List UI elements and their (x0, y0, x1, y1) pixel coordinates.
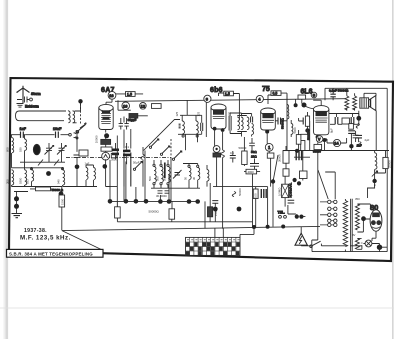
antenna loop wire (16, 111, 67, 121)
oscillator coil 5 (198, 167, 200, 179)
title box S.B.R. 384 A (7, 249, 104, 257)
svg-text:50000Ω: 50000Ω (149, 210, 160, 214)
power transformer terminal circles col2 (334, 200, 337, 226)
diode load caps (249, 138, 255, 152)
wire coil tops bus (12, 167, 63, 169)
trimmer capacitor 1 (45, 146, 54, 155)
osc bottom wire (151, 187, 200, 189)
tube 80 plates (372, 213, 380, 218)
svg-text:1nF: 1nF (85, 162, 90, 166)
long vertical 75/6L6 to bus (317, 151, 319, 227)
svg-text:P: P (374, 184, 376, 188)
transformer feed wires (318, 170, 335, 199)
osc grid resistor dark box (129, 114, 138, 119)
wire top cap (106, 94, 143, 105)
wire 75 cathode (267, 134, 270, 187)
speaker cone (369, 96, 376, 111)
wire down to ground (14, 192, 28, 214)
warning triangle (295, 233, 307, 245)
tube 6A7 electrode stack (101, 110, 111, 123)
osc trimmer cap (173, 170, 182, 179)
svg-text:V: V (318, 137, 321, 142)
junction dot tone (372, 179, 376, 183)
transformer core lines (351, 199, 353, 251)
svg-text:500: 500 (162, 176, 166, 181)
vertical resistor between 75 and 6L6 (296, 135, 301, 145)
IFT1 primary winding (182, 121, 184, 134)
lower link wire (117, 217, 252, 222)
circled V meter (316, 136, 323, 143)
svg-text:350: 350 (355, 197, 360, 201)
svg-text:1500: 1500 (61, 198, 65, 205)
iron core oval (33, 144, 40, 154)
small box right of meter (111, 153, 116, 157)
wire osc switch stem (170, 158, 172, 202)
arrow symbol tone (372, 171, 378, 177)
junction dot g2 (14, 204, 19, 209)
circled 1 volume (265, 143, 273, 151)
wire 75 top (268, 93, 287, 150)
antenna coupling capacitor (17, 97, 29, 103)
wire 6b6 down (215, 131, 223, 151)
transformer HT secondary zigzag (355, 204, 359, 230)
caps under coils (158, 191, 170, 193)
resistor box v1 (115, 207, 121, 218)
gang arrows (38, 160, 59, 166)
tube 6L6G cathode dots (316, 135, 320, 139)
wire row1 bus (106, 186, 118, 188)
curl under IFT2 (232, 192, 235, 197)
input wire with capacitors (11, 134, 69, 136)
aux coil chain b (94, 167, 96, 179)
svg-text:0,5: 0,5 (273, 92, 278, 96)
svg-text:50000Ω: 50000Ω (281, 118, 285, 129)
band switch junction dot (78, 99, 82, 103)
resistor small box (349, 124, 354, 130)
cap 8uF a (348, 131, 355, 134)
speaker field coil box (360, 98, 369, 108)
wire right bus y150 (283, 150, 389, 152)
junction dot padder (75, 165, 80, 170)
bias box 75 (267, 153, 274, 158)
tube 80 leads (372, 231, 376, 241)
circled 10 (122, 102, 130, 110)
bottom-left texts (20, 228, 71, 242)
tube 6b6 body (211, 104, 226, 129)
svg-text:Sterm: Sterm (31, 92, 41, 96)
bias resistor box dark (101, 139, 111, 144)
scan right edge line (392, 0, 394, 339)
coil column 3 lower (32, 170, 34, 181)
input terminals (69, 133, 72, 136)
resistor box 10000 (101, 147, 112, 151)
screen dropping box (305, 116, 309, 126)
wire coil bottoms bus (12, 181, 63, 186)
resistor box 50000 vertical (242, 151, 247, 165)
bold capacitor A (112, 149, 119, 152)
junction dot g1 (14, 196, 19, 201)
tube 6b6 cathode dots (213, 127, 217, 131)
wires 6L6 down (318, 114, 359, 151)
output transformer primary zigzag (345, 88, 349, 110)
bold capacitor B (123, 150, 131, 153)
stacked resistor boxes right of 75 (283, 151, 289, 164)
osc coil top wires (154, 160, 198, 188)
junction dots bus (252, 225, 256, 229)
junction dot tuning (46, 171, 51, 176)
circled meter symbol (102, 152, 110, 160)
oscillator coil 4 (189, 167, 191, 179)
junction dot bus150 (295, 149, 299, 153)
svg-text:3000: 3000 (111, 158, 117, 162)
svg-text:600: 600 (5, 147, 9, 152)
svg-text:5000: 5000 (293, 127, 297, 134)
svg-text:0,5MΩ: 0,5MΩ (278, 188, 282, 196)
vertical resistor 100 (253, 189, 258, 199)
wires 75-6L6 (275, 95, 309, 151)
junction dot lamp right (377, 245, 382, 250)
wire resistor leads (30, 188, 55, 190)
volume potentiometer box (282, 184, 289, 197)
AVC resistor 1500 (61, 187, 63, 196)
tube 6L6G anode hatch (316, 111, 327, 116)
grid resistor box 75 (271, 91, 281, 96)
band switch wiper (78, 123, 86, 131)
svg-text:30.000Ω: 30.000Ω (156, 194, 167, 198)
AF out caps (288, 200, 295, 203)
bus corner to switch (312, 227, 318, 246)
svg-text:M.F. 123,5 kHz.: M.F. 123,5 kHz. (20, 235, 71, 242)
antenna loop coil left (68, 111, 70, 123)
coil terminals row top (12, 150, 63, 169)
wires to bottom bus (110, 136, 210, 229)
svg-text:50000: 50000 (238, 188, 242, 196)
svg-text:14: 14 (334, 141, 339, 146)
screen resistor box 6L6 (298, 95, 306, 99)
mains switch (312, 241, 321, 246)
svg-text:30000: 30000 (278, 154, 282, 162)
tone coil right (375, 153, 377, 169)
band switch dashed stem (80, 104, 82, 126)
coupling cap 75 plate (278, 118, 281, 125)
svg-text:1,5: 1,5 (127, 93, 132, 97)
junction dots mid (293, 178, 297, 182)
ground terminal label Eatdorm (17, 104, 24, 108)
speaker wires (359, 93, 376, 150)
junction dot mid (158, 199, 163, 204)
gang dash-dot line (66, 157, 171, 159)
aux chain under 6b6 (207, 170, 209, 181)
6b6 bias circle (213, 146, 220, 153)
circled 12 (140, 103, 147, 110)
svg-text:8μF: 8μF (329, 128, 333, 133)
ganging link wire (20, 161, 65, 163)
svg-text:15000: 15000 (214, 208, 218, 216)
tube 75 anode hatch (262, 113, 273, 118)
svg-text:10: 10 (123, 103, 128, 108)
antenna coil MW primary (25, 139, 27, 150)
small cap right (353, 131, 359, 142)
svg-text:125: 125 (228, 111, 232, 116)
IFT2 third winding (247, 117, 249, 130)
switch arrow osc2 (162, 146, 170, 154)
IFT1 tuning cap (201, 123, 203, 131)
resistor box mid (301, 141, 305, 151)
junction dots TEL (295, 215, 299, 219)
svg-text:125: 125 (197, 111, 201, 116)
svg-text:12: 12 (141, 103, 146, 108)
hook symbol (141, 154, 144, 159)
horizontal link y187 (213, 186, 268, 188)
oscillator coil 1 (154, 166, 156, 182)
junction dot speaker (356, 116, 361, 121)
cap pair right (303, 118, 306, 125)
junction dot HT (361, 216, 366, 221)
wire osc section (118, 100, 148, 186)
tube 6L6G body (314, 106, 329, 135)
svg-text:60μμF: 60μμF (128, 118, 137, 122)
wire 6A7 cathode down (106, 159, 111, 186)
svg-text:75: 75 (262, 86, 270, 93)
B+ wire to rectifier (368, 183, 375, 198)
tone wires (375, 151, 388, 182)
AF coupling caps (250, 159, 259, 171)
svg-text:0300: 0300 (18, 177, 22, 184)
tube 6b6 anode hatch (213, 109, 224, 114)
top right cap (330, 94, 335, 97)
valve table (186, 237, 241, 255)
callout diagonal to title box (62, 231, 102, 250)
plate diagonal wire (144, 120, 181, 151)
resistor box AF (246, 169, 257, 174)
svg-text:1,5: 1,5 (225, 92, 230, 96)
svg-text:0,1μF 50000Ω: 0,1μF 50000Ω (329, 89, 349, 93)
dark cap bars mid (296, 151, 301, 161)
osc coil terminal circles (153, 164, 155, 166)
svg-text:50Ω: 50Ω (251, 150, 257, 154)
curl a (356, 123, 359, 128)
IFT2 right coil lower (252, 123, 254, 134)
circled 9 (204, 95, 211, 102)
svg-text:500: 500 (155, 176, 159, 181)
IFT2 cap left (229, 116, 231, 131)
switch arrow osc1 (151, 139, 159, 147)
tube 75 cathode dot (265, 130, 269, 134)
IFT1 secondary winding (196, 121, 198, 134)
chassis ground symbol (12, 214, 23, 218)
svg-text:10000: 10000 (95, 135, 99, 143)
top bus wire (115, 99, 345, 102)
wire primary top (12, 135, 25, 139)
svg-text:500: 500 (148, 176, 152, 181)
IFT1 wires (178, 100, 202, 150)
curl b (358, 142, 361, 147)
6b6 bias dark box (213, 153, 221, 157)
svg-text:4000: 4000 (248, 170, 255, 174)
tube 75 body (261, 108, 276, 130)
trimmer capacitor 2 (57, 146, 66, 155)
junction dot caps (349, 144, 353, 148)
transformer primary winding zigzag (343, 199, 347, 252)
tone resistor box (383, 157, 388, 168)
power transformer terminal circles col1 (328, 200, 331, 226)
svg-text:TEL.: TEL. (278, 211, 285, 215)
choke chain b (291, 123, 293, 134)
resistor box screen (152, 104, 162, 109)
main bottom bus (62, 226, 320, 230)
svg-text:50000: 50000 (313, 149, 321, 153)
svg-text:1nF: 1nF (20, 127, 27, 131)
svg-text:2μF: 2μF (365, 138, 370, 142)
oscillator coil 2 (161, 166, 163, 182)
svg-text:S.B.R. 384 A MET TEGENKOPPE: S.B.R. 384 A MET TEGENKOPPELING (9, 251, 93, 256)
svg-text:10Ω: 10Ω (251, 155, 257, 159)
volume pot wire (252, 170, 254, 172)
resistor 50000 ohm (36, 187, 51, 191)
long vertical det (205, 100, 207, 137)
triangle wires (301, 227, 311, 246)
grid resistor box 6b6 (224, 91, 234, 96)
coil column 1 lower (12, 170, 14, 185)
antenna symbol (17, 86, 30, 103)
aux coil chain a (86, 167, 88, 179)
circled 14 (333, 139, 340, 146)
IFT1 terminal circles (182, 135, 184, 137)
tube 80 body (370, 210, 382, 231)
oscillator coil 3 (168, 166, 170, 182)
coupling cap 6b6 (230, 151, 236, 163)
cathode resistor dark box (208, 207, 213, 217)
svg-text:50: 50 (183, 176, 187, 180)
wires bus to table (215, 227, 254, 238)
small value labels (5, 111, 391, 237)
wire 6b6 top (219, 93, 240, 121)
transformer terminal left stubs (320, 202, 328, 225)
svg-text:50μF: 50μF (133, 161, 140, 165)
svg-text:0,1: 0,1 (125, 145, 129, 149)
switch arrow osc3 (174, 151, 182, 159)
IFT2 cap right top (251, 117, 253, 123)
choke chain a (287, 104, 289, 118)
svg-text:4V: 4V (352, 233, 356, 237)
top bus right (325, 88, 387, 100)
antenna loop coil right (73, 111, 75, 123)
svg-text:1937-38.: 1937-38. (24, 228, 47, 234)
IFT2 wires (230, 113, 252, 137)
svg-text:300: 300 (5, 179, 9, 184)
cap 8uF b (355, 135, 362, 138)
svg-text:25000: 25000 (388, 160, 392, 168)
circled 4 (256, 95, 263, 102)
junction row wire (108, 200, 200, 202)
switch arrow osc4 (135, 162, 142, 169)
svg-text:NORMAAL: NORMAAL (288, 182, 292, 197)
padder trim box (63, 169, 77, 187)
feedback resistor box (314, 144, 322, 149)
right bus vertical (386, 88, 388, 251)
tube 6A7 cathode lead (105, 130, 107, 133)
svg-text:033: 033 (25, 179, 29, 184)
svg-text:16: 16 (109, 93, 114, 98)
wire AVC down to bus (61, 207, 63, 230)
svg-text:125: 125 (175, 111, 179, 116)
coil column 4 lower (63, 170, 65, 185)
cathode cap + dot (212, 201, 218, 204)
transformer terminal links (331, 202, 334, 225)
transformer to rectifier wires (357, 204, 370, 249)
dark cap pair (261, 189, 266, 198)
gang dash vertical (170, 139, 172, 158)
IFT1 core ticks (179, 124, 181, 128)
bottom right bus (311, 246, 388, 251)
circled 16 grid cap (108, 91, 116, 99)
wire 6L6 top to bus (313, 100, 321, 105)
junction dot cathode (103, 164, 108, 169)
tube 6A7 body (99, 104, 113, 129)
svg-text:040: 040 (56, 179, 60, 184)
junction dot under IFT2 (237, 207, 242, 212)
osc coil core bar (164, 163, 166, 179)
pilot lamp (365, 240, 372, 247)
oscillator padder branch wire (74, 132, 81, 166)
wires trimmer stems (49, 143, 62, 162)
scan bottom faint line (0, 308, 394, 309)
svg-text:Eatdorm: Eatdorm (25, 105, 39, 109)
coil column 2 lower (25, 170, 27, 185)
plate blocking caps cluster (335, 117, 338, 124)
IFT2 primary winding (237, 117, 239, 130)
6b6 cathode curl (221, 150, 225, 158)
antenna coil LW primary (12, 138, 14, 153)
diagonal wiper wire (273, 155, 278, 182)
svg-text:30: 30 (192, 176, 196, 180)
scan left edge band (6, 0, 9, 339)
svg-text:100: 100 (253, 193, 257, 198)
output transformer secondary zigzag (353, 93, 357, 110)
svg-text:50000: 50000 (239, 146, 247, 150)
IFT2 secondary winding (241, 117, 243, 130)
lamp wires (363, 244, 387, 252)
wave-change switch contact (80, 124, 87, 129)
junction dot right (59, 191, 64, 196)
svg-text:030: 030 (18, 147, 22, 152)
transformer filament winding zigzag (355, 238, 359, 249)
resistor box v2 (169, 209, 175, 219)
svg-text:10nF: 10nF (53, 127, 62, 131)
resistor box 150 (126, 92, 136, 97)
svg-text:0,1: 0,1 (230, 151, 234, 155)
osc padding caps top (119, 124, 129, 127)
svg-text:G: G (313, 94, 316, 98)
grid capacitor pair (121, 118, 127, 130)
wire loop coil to band switch (68, 104, 80, 123)
